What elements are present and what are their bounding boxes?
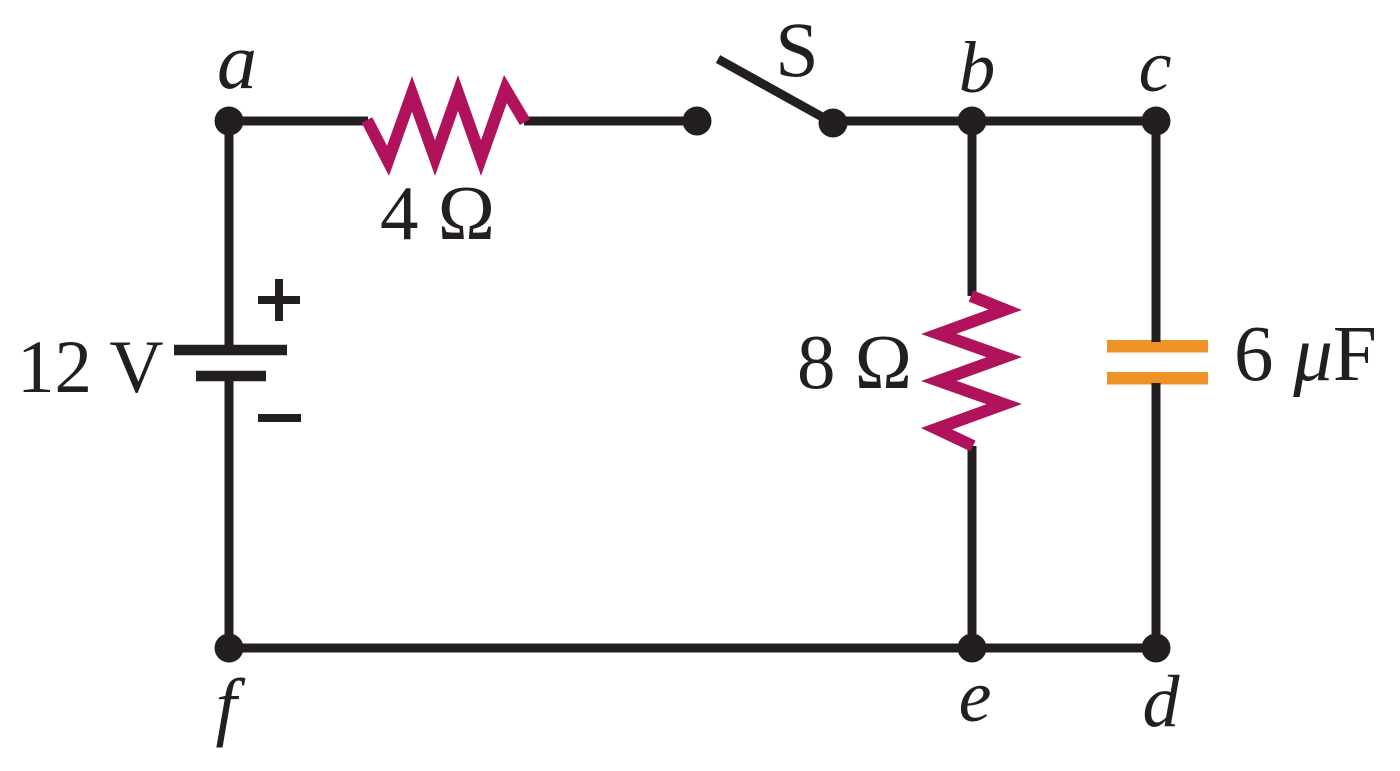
resistor R1 4-ohm zigzag: [367, 89, 525, 161]
svg-text:8 Ω: 8 Ω: [797, 319, 912, 405]
battery minus sign: [258, 414, 301, 422]
svg-text:e: e: [959, 656, 992, 738]
svg-text:a: a: [217, 18, 257, 106]
node b: [958, 107, 987, 136]
capacitor C1 bottom plate: [1107, 372, 1208, 385]
svg-text:4 Ω: 4 Ω: [380, 170, 495, 256]
svg-text:S: S: [775, 6, 818, 93]
svg-text:b: b: [959, 27, 996, 108]
svg-text:12 V: 12 V: [17, 326, 164, 409]
wire battery negative plate down to node f: [225, 379, 234, 648]
wire node c down to capacitor top plate: [1152, 121, 1161, 342]
wire node a down to battery positive plate: [225, 121, 234, 353]
node c: [1142, 107, 1171, 136]
svg-text:d: d: [1143, 661, 1181, 743]
svg-text:6 μF: 6 μF: [1234, 311, 1377, 398]
wire resistor R1 to switch left contact: [524, 117, 697, 126]
node a: [215, 107, 244, 136]
wire node b down to resistor R2: [968, 121, 977, 296]
svg-text:c: c: [1139, 26, 1172, 108]
node d: [1142, 634, 1171, 663]
battery plus sign: [258, 279, 300, 321]
resistor R2 8-ohm zigzag: [937, 296, 1006, 446]
svg-text:f: f: [215, 664, 245, 748]
switch pivot dot: [819, 109, 848, 138]
switch left contact dot: [683, 107, 712, 136]
node f: [215, 634, 244, 663]
battery B1 positive long plate: [174, 345, 287, 356]
wire bottom f to d through e: [229, 644, 1156, 653]
wire switch pivot to node c through node b: [833, 117, 1156, 126]
capacitor C1 top plate: [1107, 340, 1208, 353]
wire capacitor bottom plate down to node d: [1152, 383, 1161, 648]
wire resistor R2 down to node e: [968, 446, 977, 648]
wire a to resistor R1: [229, 117, 368, 126]
switch S arm: [718, 59, 833, 123]
node e: [958, 634, 987, 663]
battery B1 negative short plate: [196, 371, 266, 382]
